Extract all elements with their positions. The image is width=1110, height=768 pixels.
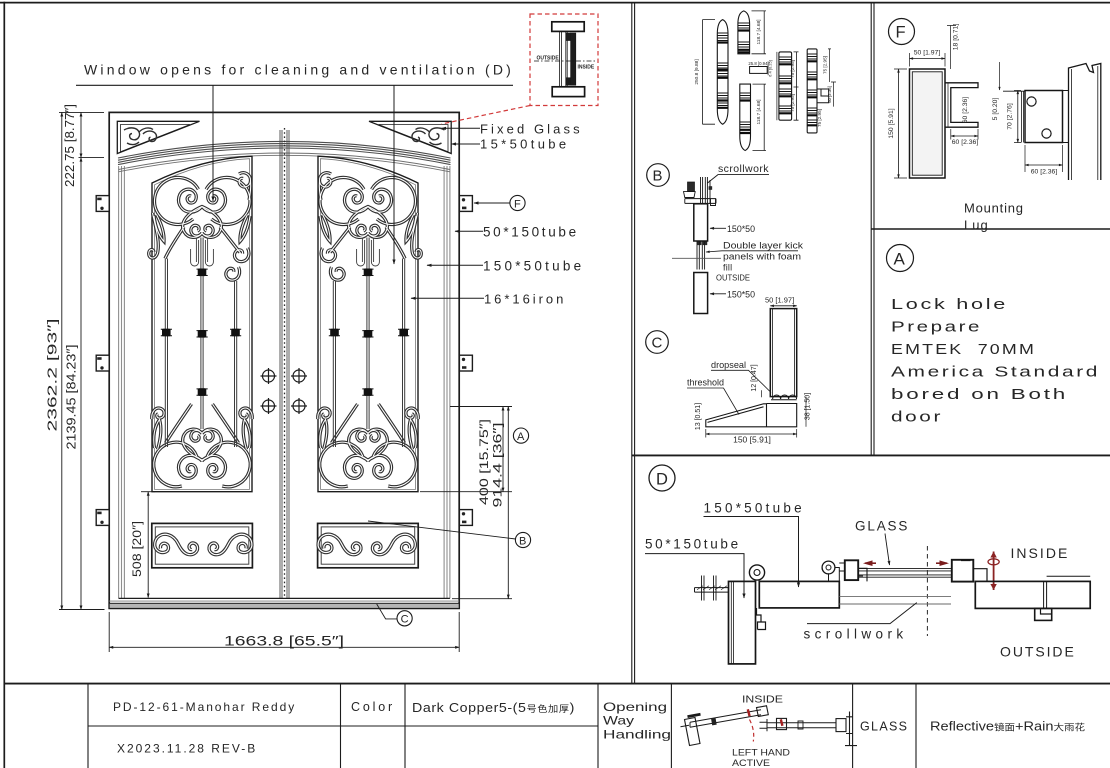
hinge leaf plate between barrels [750,67,768,74]
svg-text:150*50tube: 150*50tube [704,501,803,516]
F: lug plate with holes [1025,91,1063,143]
kick panel frame [152,523,253,567]
svg-text:Opening: Opening [603,700,667,714]
svg-text:15*50tube: 15*50tube [480,137,567,152]
top heart eyes [191,225,202,236]
C balloon + leader [397,611,412,626]
hinge barrel 2 [738,11,750,54]
C: threshold wedge [706,404,797,427]
svg-text:Fixed Glass: Fixed Glass [480,122,581,137]
F: dim 18 right top [947,26,956,70]
svg-text:INSIDE: INSIDE [742,694,783,706]
svg-text:118.7 [4.68]: 118.7 [4.68] [756,20,762,45]
page border left [3,2,5,768]
svg-text:F: F [514,198,521,210]
F: dim 150 left [894,69,907,178]
svg-text:C: C [652,335,663,352]
D: jamb tube vertical [729,581,756,664]
svg-text:EMTEK 70MM: EMTEK 70MM [891,342,1036,358]
svg-text:Prepare: Prepare [891,320,982,336]
svg-text:GLASS: GLASS [860,720,908,734]
svg-text:150*50: 150*50 [727,290,755,300]
D: centre dash line [926,546,928,636]
top volute left [179,189,202,212]
F: tube elevation [910,69,946,178]
F: dim 5 [999,62,1001,90]
svg-text:A: A [517,431,525,443]
B section balloon [647,164,670,187]
kick panel scroll chain [155,534,198,554]
window label underline [76,84,513,86]
svg-text:60 [2.36]: 60 [2.36] [952,139,979,146]
detail box: glazing section sketch [534,22,595,97]
divider between door view and sections column [632,3,635,684]
opening way sketch: right leaf (flat) [760,712,858,747]
F: bracket [945,83,978,127]
svg-text:75 [2.95]: 75 [2.95] [790,60,795,78]
B balloon + leader [515,532,530,547]
D: glass lines [858,569,951,578]
top inverted heart [183,207,222,238]
lower motif: side leaf tips [154,420,161,450]
hinge3 dim bracket [753,84,767,150]
lower motif: big circle left [154,442,197,487]
F: dim 60 bottom right [1025,145,1063,172]
D: anchor stub left [695,588,729,593]
svg-text:222.75 [8.77″]: 222.75 [8.77″] [63,104,77,187]
svg-text:1663.8 [65.5″]: 1663.8 [65.5″] [224,634,344,649]
svg-text:X2023.11.28 REV-B: X2023.11.28 REV-B [117,742,256,756]
svg-text:75 [2.95]: 75 [2.95] [817,109,822,127]
door arch band (grey filled) [118,141,451,164]
hinge4 dim brackets [776,52,778,120]
corner spiral [239,173,251,200]
dim 1663.8 bottom [109,612,459,652]
D: glass clamp left [845,560,858,580]
D section balloon [649,465,675,491]
divider above section D [632,454,1110,456]
door arch inner double line [119,153,450,170]
red leader diagonal [442,106,531,125]
D: red arrow left [865,562,876,564]
title block top line [4,683,1110,685]
lower motif: heart eyes [191,431,202,442]
F: door edge profile [1069,64,1101,181]
right stacked curls [234,248,248,262]
svg-text:A: A [894,250,906,269]
F: dim 50 top [910,53,946,67]
left drooping leaf [154,215,164,242]
svg-text:Dark Copper5-(5号色加厚): Dark Copper5-(5号色加厚) [412,701,575,715]
top big circle left [155,177,199,224]
divider above note A [871,228,1110,230]
svg-text:bored on Both: bored on Both [891,387,1068,403]
svg-text:2139.45 [84.23″]: 2139.45 [84.23″] [65,345,79,450]
svg-text:threshold: threshold [687,378,724,388]
A note text [891,297,1100,426]
lower motif: volutes [179,455,202,478]
door frame inner band right [444,166,450,598]
F panel balloon [889,19,915,45]
top big circle right [206,177,250,224]
hinge barrel 4 [779,52,792,120]
svg-text:OUTSIDE: OUTSIDE [537,56,560,62]
D: right leaf tube [975,581,1090,608]
svg-text:60 [2.36]: 60 [2.36] [827,86,832,103]
svg-text:INSIDE: INSIDE [1011,545,1069,561]
triangle left scrolls [124,128,156,145]
C: dim 150 bottom [706,429,797,438]
right drooping leaf [240,215,250,242]
dim 508 kick [141,491,155,493]
dim 2362.2 left [59,112,105,609]
svg-text:50*150tube: 50*150tube [645,537,739,552]
page border top [0,2,1110,4]
svg-text:ACTIVE: ACTIVE [732,758,770,768]
F: dim 70 [1014,91,1021,143]
svg-text:150*50tube: 150*50tube [483,259,582,274]
svg-text:914.4 [36″]: 914.4 [36″] [491,423,505,508]
svg-text:Way: Way [603,714,634,728]
svg-text:Reflective镜面+Rain大雨花: Reflective镜面+Rain大雨花 [930,720,1085,734]
svg-text:B: B [653,168,663,185]
svg-text:Window opens for cleaning and: Window opens for cleaning and ventilatio… [84,62,512,78]
divider between sections column and right column [871,3,874,456]
A panel balloon [887,245,914,272]
svg-text:America Standard: America Standard [891,365,1100,381]
bar collars [162,269,240,396]
B: scroll bars section [684,177,717,245]
opening way sketch: left leaf red hinge tick [748,709,750,716]
svg-text:6.4 [0.25]: 6.4 [0.25] [768,60,773,77]
door outer frame [109,112,459,608]
centre mullion band [280,130,289,598]
svg-text:150*50: 150*50 [727,224,755,234]
svg-text:scrollwork: scrollwork [718,163,769,175]
handles (4 cross circles) [261,368,308,414]
right leaf (mirror) [318,156,422,568]
A balloon [513,428,528,443]
hinge1 dim bracket [703,20,716,125]
title block row divider [88,725,598,727]
C: dropseal bumps [771,395,797,400]
svg-text:D: D [656,471,668,489]
svg-text:scrollwork: scrollwork [804,627,905,642]
title block column lines [88,684,916,768]
svg-text:75 [2.95]: 75 [2.95] [823,56,828,74]
dim 400 / 914.4 right [420,407,512,599]
svg-text:75 [2.95]: 75 [2.95] [790,94,795,112]
D: red arrow right [936,562,947,564]
D: anchor bolts [702,576,717,601]
svg-text:50*150tube: 50*150tube [483,225,577,240]
svg-text:Double layer kick: Double layer kick [723,241,804,251]
C section balloon [646,331,669,354]
svg-text:Mounting: Mounting [964,201,1024,216]
svg-text:GLASS: GLASS [855,519,909,534]
D: scrollwork strip [839,596,951,604]
hinge barrel 1 [717,20,728,125]
lower motif: diagonal struts [166,404,192,443]
lower motif: big circle right [207,442,250,487]
svg-text:25.8 [0.94]: 25.8 [0.94] [748,61,768,66]
svg-text:B: B [519,535,526,547]
svg-text:60 [2.36]: 60 [2.36] [962,97,969,124]
svg-text:OUTSIDE: OUTSIDE [716,273,750,283]
svg-text:F: F [896,24,906,42]
lower motif: corner spirals [152,408,164,419]
D: hinge circle 2 [822,561,835,574]
svg-text:13 [0.51]: 13 [0.51] [695,403,702,430]
D: hinge circle at jamb [749,565,764,580]
svg-text:70 [2.76]: 70 [2.76] [1007,103,1014,130]
B: lower 150x50 tube [694,273,708,314]
svg-text:60 [2.36]: 60 [2.36] [1031,169,1058,176]
centre line (dotted) [284,128,286,598]
F: dim 60 below bracket [951,129,978,140]
hinge boxes right [459,196,472,526]
window leader right [393,85,395,264]
hinge5 strike plate [817,89,829,103]
hinge barrel 5 [807,49,817,133]
hinge barrel 3 [740,84,751,150]
opening way sketch: red swing dashes [750,720,754,742]
svg-text:150 [5.91]: 150 [5.91] [888,108,895,138]
door bottom rail line [119,597,450,599]
hinge boxes left [96,196,109,526]
svg-text:12 [0.47]: 12 [0.47] [751,364,758,391]
panel border [152,156,252,492]
vertical bars [165,238,236,448]
svg-text:Lock hole: Lock hole [891,297,1008,313]
triangle right scrolls [412,128,444,145]
fixed glass corner triangle left [117,121,199,153]
dim 2139.45 left [79,157,105,159]
opening way sketch: left leaf (tilted) [681,706,769,746]
fixed glass corner triangle right [369,121,451,153]
D: glass clamp right [952,560,974,582]
hinge2 dim bracket [752,11,767,54]
svg-text:door: door [891,410,943,426]
svg-text:50 [1.97]: 50 [1.97] [765,296,794,305]
D: leaf tube horizontal [759,581,839,608]
svg-text:Lug: Lug [964,218,989,233]
svg-text:Color: Color [351,700,393,714]
lower motif: centre heart [183,429,222,460]
svg-text:16*16iron: 16*16iron [484,292,564,307]
B: kick panel double layer [697,241,705,270]
B: break line [672,257,721,259]
C: vertical tube [770,309,796,397]
svg-text:C: C [401,614,409,626]
opening way sketch: right leaf red tick [781,719,783,726]
svg-text:2362.2 [93″]: 2362.2 [93″] [46,319,60,432]
svg-text:150 [5.91]: 150 [5.91] [733,435,771,445]
F balloon [510,195,525,210]
svg-text:50 [1.97]: 50 [1.97] [914,50,941,57]
top struts [165,227,184,259]
svg-text:Handling: Handling [603,728,671,742]
svg-text:38 [1.50]: 38 [1.50] [805,393,812,420]
svg-text:panels with foam: panels with foam [723,252,801,262]
D: step clip below jamb [757,608,766,630]
svg-text:250.8 [9.88]: 250.8 [9.88] [694,59,700,84]
threshold band [109,600,459,602]
D: red screw right [993,552,995,591]
svg-text:fill: fill [723,263,732,273]
svg-text:OUTSIDE: OUTSIDE [1000,644,1075,660]
svg-text:PD-12-61-Manohar Reddy: PD-12-61-Manohar Reddy [113,700,295,714]
svg-text:18 [0.71]: 18 [0.71] [953,24,960,51]
svg-text:dropseal: dropseal [711,360,746,370]
window leader left [212,85,214,201]
D: keeper block [1035,608,1052,620]
top volute right [202,189,225,212]
svg-text:5 [0.20]: 5 [0.20] [992,98,999,121]
red detail box [530,14,598,106]
svg-text:INSIDE: INSIDE [578,65,595,71]
svg-text:508 [20″]: 508 [20″] [132,521,144,577]
B: upper 150x50 tube [694,204,708,241]
svg-text:118.7 [4.68]: 118.7 [4.68] [756,100,762,125]
hinge5 dim brackets [828,49,836,107]
svg-text:400 [15.75″]: 400 [15.75″] [477,419,491,505]
left side hook + curl [149,213,159,258]
door frame inner band left [119,166,125,598]
